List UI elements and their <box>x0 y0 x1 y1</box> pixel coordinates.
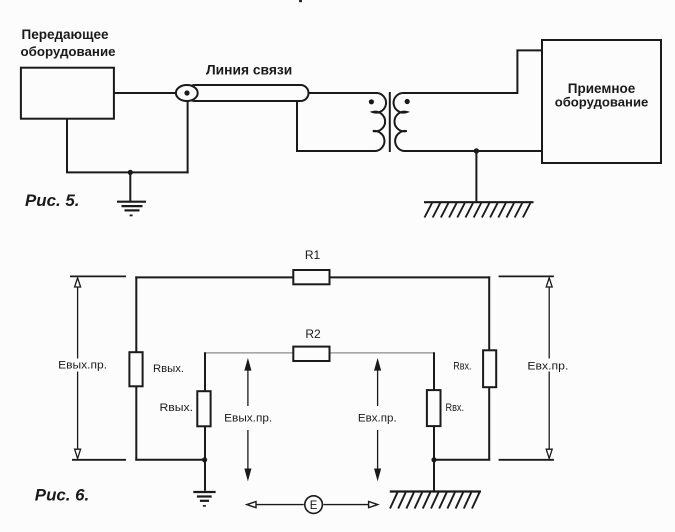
source E circle <box>305 496 323 514</box>
svg-text:Rвых.: Rвых. <box>160 402 194 414</box>
wire: inner left branch <box>204 352 206 491</box>
resistor R1 <box>293 270 329 284</box>
label: Передающее оборудование <box>21 27 116 59</box>
svg-text:E: E <box>310 500 318 512</box>
wire: secondary bottom to rx box <box>404 150 542 152</box>
arrow Eвх.пр. inner (double headed) <box>375 360 380 479</box>
svg-text:Rвх.: Rвх. <box>446 402 465 414</box>
wire: coax center conductor to transformer primary <box>309 92 375 94</box>
wire: bottom right segment <box>433 459 490 461</box>
receiving equipment box <box>542 40 661 163</box>
wire: bottom left segment <box>135 459 205 461</box>
svg-text:Eвых.пр.: Eвых.пр. <box>224 412 272 424</box>
coax end-cap ellipse <box>176 85 198 101</box>
arrow Eвых.пр. inner (double headed) <box>245 360 250 479</box>
svg-text:Eвых.пр.: Eвых.пр. <box>58 360 107 372</box>
arrow Eвх.пр. outer (double headed) <box>546 278 552 459</box>
transmitting equipment box <box>21 68 114 119</box>
svg-text:Линия связи: Линия связи <box>206 63 292 78</box>
svg-text:Rвых.: Rвых. <box>153 363 184 375</box>
transformer core <box>389 92 391 152</box>
junction: ground node <box>128 170 133 175</box>
junction: node right bottom <box>431 457 436 462</box>
wire: right branch fig6 <box>488 276 490 460</box>
wire: coax shield right drop <box>297 101 374 151</box>
chassis ground (hatched) fig5 <box>424 202 534 217</box>
ground (earth) symbol fig5 <box>117 202 146 216</box>
svg-text:Рис. 6.: Рис. 6. <box>35 486 89 505</box>
resistor Rвх outer <box>483 350 496 387</box>
svg-text:оборудование: оборудование <box>21 44 116 59</box>
transformer T1 primary winding <box>372 93 386 151</box>
polarity dot primary <box>369 99 374 104</box>
ground (earth) symbol fig6 <box>193 492 215 506</box>
chassis ground (hatched) fig6 <box>390 492 481 509</box>
wire: secondary top to rx box <box>404 50 542 93</box>
stray mark top edge <box>299 0 302 2</box>
wire: tx box bottom to ground bus <box>67 120 189 173</box>
svg-text:оборудование: оборудование <box>555 94 649 109</box>
wire: left branch fig6 <box>135 276 137 460</box>
resistor Rвых outer <box>129 352 142 386</box>
transformer T1 secondary winding <box>394 93 408 151</box>
wire: tx box to coax line <box>114 92 182 94</box>
svg-text:Eвх.пр.: Eвх.пр. <box>358 412 397 424</box>
wire: top bus fig6 <box>135 276 490 278</box>
measure bar top right <box>499 275 554 277</box>
coax cable body (Линия связи) <box>187 85 309 101</box>
arrow E horizontal (double headed) <box>247 502 378 508</box>
wire: secondary ground lead <box>475 151 477 201</box>
measure bar top left <box>70 275 126 277</box>
svg-text:Рис. 5.: Рис. 5. <box>25 191 79 210</box>
wire: inner right branch <box>433 352 435 491</box>
resistor R2 <box>293 347 329 361</box>
junction: node left bottom <box>202 457 207 462</box>
svg-text:Передающее: Передающее <box>22 27 109 42</box>
resistor Rвх inner <box>427 390 441 426</box>
arrow Eвых.пр. outer (double headed) <box>75 278 81 459</box>
label: Приемное оборудование <box>555 81 649 109</box>
svg-text:R1: R1 <box>305 248 321 262</box>
measure bar bottom left <box>72 459 126 461</box>
junction: secondary ground node <box>474 148 479 153</box>
coax center-conductor dot <box>184 90 189 95</box>
measure bar bottom right <box>499 459 554 461</box>
svg-text:Rвх.: Rвх. <box>453 360 471 372</box>
svg-text:R2: R2 <box>305 327 321 341</box>
wire: ground lead <box>129 172 131 201</box>
resistor Rвых inner <box>197 391 210 426</box>
wire: R2 net (gray) <box>205 352 434 354</box>
svg-text:Eвх.пр.: Eвх.пр. <box>527 361 568 373</box>
wire: coax shield left drop <box>187 101 189 173</box>
polarity dot secondary <box>405 99 410 104</box>
